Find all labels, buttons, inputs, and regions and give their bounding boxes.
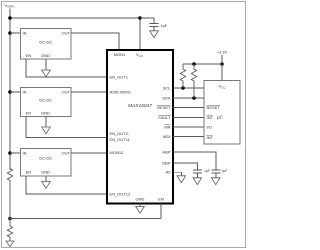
svg-text:EN_OUT12: EN_OUT12 [110,191,131,196]
svg-text:VCC: VCC [136,52,144,58]
wire MR line [173,126,204,128]
svg-text:IN: IN [23,30,27,35]
capacitor ABP bypass [211,170,220,178]
junction dot rail-box3 IN [8,151,12,155]
wire VCC riser [139,18,141,50]
microcontroller uC box [204,81,240,145]
svg-text:MON1: MON1 [114,52,126,57]
svg-text:OUT: OUT [62,150,71,155]
svg-text:RESET: RESET [207,105,221,110]
svg-text:EN: EN [26,53,32,58]
op IC U1 MAX16047 [107,50,173,204]
svg-text:MR: MR [164,124,170,129]
junction dot pullup rail R2 [192,62,196,66]
ground under IC GND [136,204,145,214]
svg-text:SCL: SCL [163,85,172,90]
wire ABP to cap [173,152,216,170]
resistor divider upper on rail [7,169,12,227]
ground under ABP cap [212,178,221,185]
wire IC EN to bottom rail [160,204,162,219]
svg-text:FAULT: FAULT [158,115,171,120]
resistor SDA pullup [191,64,196,98]
svg-text:1µF: 1µF [222,169,228,173]
wire SCL line [173,87,204,89]
junction dot rail-box2 IN [8,90,12,94]
wire top rail horizontal to VCC [10,17,140,19]
wire box3 OUT to MON12 [71,152,107,154]
wire box2 EN to EN_OUT2-EN_OUT11 [26,117,107,138]
svg-text:EN_OUT1: EN_OUT1 [110,74,129,79]
svg-text:GND: GND [136,197,145,202]
resistor divider lower [7,226,12,241]
svg-text:VCC: VCC [218,84,226,90]
junction dot SDA pullup [192,96,196,100]
svg-text:EN_OUT11: EN_OUT11 [110,137,131,142]
capacitor C1 VCC bypass [150,24,159,31]
svg-text:A0: A0 [166,170,172,175]
wire A0 to ground [173,172,181,176]
svg-text:OUT: OUT [62,30,71,35]
wire VSUPPLY rail vertical segment 1 [9,9,11,171]
DC-DC converter 2 [21,88,72,117]
wire bottom rail to EN [10,218,161,220]
wire pullup top rail [183,63,222,65]
svg-text:IN: IN [23,150,27,155]
wire RESET line [173,107,204,109]
svg-text:GND: GND [41,53,50,58]
wire SDA line [173,97,204,99]
svg-text:1µF: 1µF [204,169,210,173]
junction dot SCL pullup [181,86,185,90]
svg-text:SDA: SDA [162,95,171,100]
svg-text:EN: EN [158,197,164,202]
svg-text:DC-DC: DC-DC [39,156,52,161]
svg-text:DBP: DBP [162,160,171,165]
svg-text:EN_OUT2-: EN_OUT2- [110,131,130,136]
svg-text:DC-DC: DC-DC [39,40,52,45]
ground under divider [6,241,14,247]
wire box3 EN to EN_OUT12 [26,176,107,194]
wire FAULT line [173,117,204,119]
svg-text:RESET: RESET [157,105,171,110]
junction dot rail-bottom rail EN divider [8,217,12,221]
svg-text:µC: µC [217,115,223,120]
wire WDI line [173,136,204,138]
svg-text:+3.3V: +3.3V [217,51,227,55]
svg-text:DC-DC: DC-DC [39,98,52,103]
resistor SCL pullup [180,64,185,88]
ground under C1 [150,31,159,38]
ground under DBP cap [193,178,202,185]
wire VCC cap branch [140,18,154,24]
junction dot rail-toprail [8,16,12,20]
border frame [2,2,246,248]
svg-text:SUPPLY: SUPPLY [7,5,15,9]
svg-text:INT: INT [207,135,214,140]
junction dot rail-box1 IN [8,31,12,35]
svg-text:GND: GND [41,111,50,116]
ground under box3 GND [42,176,51,188]
wire box1 EN to EN_OUT1 [26,59,107,77]
junction dot VCC cap tap [138,16,142,20]
svg-text:1µF: 1µF [161,24,168,28]
svg-text:GND: GND [41,170,50,175]
wire DBP to cap [173,163,197,170]
svg-text:EN: EN [26,170,32,175]
svg-text:WDI: WDI [163,134,171,139]
svg-text:MAX16047: MAX16047 [128,103,152,108]
DC-DC converter 1 [21,29,72,60]
svg-text:I/O: I/O [207,124,212,129]
wire box1 OUT to MON1 [71,33,119,50]
svg-text:EN: EN [26,111,32,116]
ground under box2 GND [42,117,51,134]
wire 3.3V riser to uC VCC [221,55,223,81]
capacitor DBP bypass [193,170,202,178]
svg-text:ABP: ABP [162,149,170,154]
DC-DC converter 3 [21,149,72,177]
wire box2 OUT to MON2-MON11 [71,91,107,93]
svg-text:INT: INT [207,115,214,120]
svg-text:OUT: OUT [62,89,71,94]
junction dot pullup rail 3.3V riser [220,62,224,66]
svg-text:MON2-MON11: MON2-MON11 [110,89,132,94]
wire box3 IN tap [10,152,21,154]
svg-text:MON12: MON12 [110,150,125,155]
svg-text:IN: IN [23,89,27,94]
wire box2 IN tap [10,91,21,93]
ground under A0 [177,176,186,183]
ground under box1 GND [42,59,51,77]
wire box1 IN tap [10,32,21,34]
